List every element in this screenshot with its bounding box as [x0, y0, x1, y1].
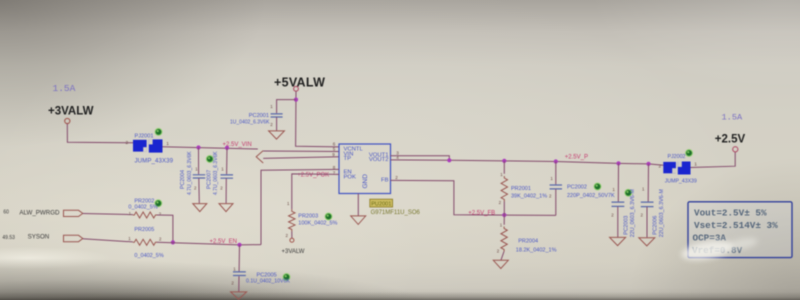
connector ALW_PWRGD [64, 210, 83, 216]
op-amp U1 body (regulator PU2001 box) [339, 144, 391, 194]
pin name EN [344, 170, 352, 176]
svg-text:G971MF11U_SO6: G971MF11U_SO6 [371, 210, 421, 216]
value 0_0402_5% PR2005 [134, 253, 163, 259]
svg-text:PU2001: PU2001 [371, 202, 391, 208]
svg-text:1: 1 [612, 187, 615, 192]
value 0_0402_5% PR2002 [128, 205, 157, 211]
wire PR2001 top [503, 161, 505, 174]
label PR2003 [298, 214, 318, 220]
value G971MF11U_SO6 [371, 210, 421, 216]
svg-text:1U_0402_6.3V6K: 1U_0402_6.3V6K [230, 119, 270, 125]
power symbol circle +3VALW [65, 118, 70, 123]
junction VOUT merge [447, 158, 451, 162]
svg-text:1: 1 [233, 266, 236, 271]
power net label +5VALW [274, 76, 325, 90]
power symbol circle +3VALW small [290, 238, 294, 242]
pin 6 number [333, 141, 336, 146]
svg-text:2: 2 [499, 200, 502, 205]
svg-text:PR2003: PR2003 [298, 214, 318, 220]
wire VOUT1 [391, 156, 450, 161]
svg-text:22U_0603_6.3V6-M: 22U_0603_6.3V6-M [659, 189, 665, 238]
wire EN net riser [261, 169, 339, 244]
wire PC2002 bottom [555, 189, 557, 215]
value 100K_0402_5% PR2003 [298, 220, 337, 226]
pin name VIN [344, 151, 354, 157]
wire PR2001 bottom [503, 202, 505, 216]
wire +5VALW down to VCNTL [296, 91, 339, 147]
wire PC2006 top [647, 164, 649, 202]
ground PC2003 [610, 237, 626, 245]
badge PR2002 [155, 200, 162, 207]
pin name VOUT1 [369, 152, 389, 158]
junction PC2004 tap [196, 145, 200, 149]
svg-text:0_0402_5%: 0_0402_5% [134, 253, 163, 259]
wire PC2003 bottom [617, 207, 619, 238]
svg-text:22U_0603_6.3V6-M: 22U_0603_6.3V6-M [630, 189, 636, 238]
badge PC2002 [594, 183, 601, 190]
note Vset=2.514V 3% [694, 220, 778, 231]
note box outline [688, 202, 792, 258]
pin number 1 of PJ2001 [166, 141, 169, 147]
wire POK to PR2003 [292, 174, 339, 209]
pin 2 of PR2004 [497, 249, 500, 254]
svg-text:4.7U_0603_6.3V6K: 4.7U_0603_6.3V6K [213, 151, 219, 195]
svg-text:220P_0402_50V7K: 220P_0402_50V7K [567, 193, 615, 199]
refdes PU2001 highlight box [370, 199, 393, 207]
pin 2 of PC2004 [194, 185, 197, 190]
junction PC2006 tap [646, 162, 650, 166]
pin 2 of PC2002 [549, 193, 552, 198]
svg-text:60: 60 [3, 210, 9, 216]
value 22U_0603_6.3V6-M PC2006 [659, 189, 665, 238]
svg-text:2: 2 [194, 185, 197, 190]
svg-text:1: 1 [166, 141, 169, 147]
pin name VOUT2 [369, 157, 389, 163]
svg-text:Vout=2.5V± 5%: Vout=2.5V± 5% [694, 207, 767, 218]
label PR2004 [518, 239, 538, 245]
power net label +2.5V [715, 134, 746, 146]
svg-text:1: 1 [500, 223, 503, 228]
power symbol circle +2.5V [733, 147, 738, 152]
junction FB divider [502, 213, 506, 217]
pin 2 of PC2001 [270, 122, 273, 127]
pin 2 number (FB) [395, 175, 398, 180]
value 0.1U_0402_10V6K [246, 279, 290, 285]
value 22U_0603_6.3V6-M PC2003 [630, 189, 636, 238]
capacitor PC2001 plates [271, 114, 283, 117]
jumper PJ2001 pads [133, 139, 163, 152]
label PC2007 [206, 170, 212, 189]
ground PC2007 [219, 204, 233, 212]
svg-text:PC2004: PC2004 [180, 170, 186, 189]
pin 3 number [396, 150, 399, 155]
pin 2 of PR2001 [499, 200, 502, 205]
pin 2 of PR2002 [159, 211, 162, 216]
wire PC2003 top [617, 163, 619, 201]
label JUMP_43X39 (PJ2002) [665, 179, 697, 185]
svg-text:1: 1 [500, 172, 503, 177]
svg-text:4.7U_0603_6.3V6K: 4.7U_0603_6.3V6K [187, 151, 193, 195]
current label 1.5A (left) [53, 83, 76, 94]
jumper PJ2002 pads [663, 162, 690, 175]
wire PR2002 to junction [157, 215, 173, 242]
pin 8 number [333, 165, 336, 170]
connector SYSON [64, 235, 83, 241]
ground PC2006 [639, 238, 655, 246]
wire ALW_PWRGD to PR2002 [83, 214, 133, 215]
wire PC2007 bottom [225, 178, 227, 203]
label PC2004 [180, 170, 186, 189]
value 4.7U_0603_6.3V6K PC2004 [187, 151, 193, 195]
pin name TP [344, 156, 352, 162]
value 39K_0402_1% [511, 194, 547, 200]
sheet ref 60 [3, 210, 9, 216]
svg-text:49.53: 49.53 [2, 235, 15, 241]
svg-text:SYSON: SYSON [28, 234, 50, 241]
junction PR2002/PR2005 [171, 240, 175, 244]
svg-text:1: 1 [642, 186, 645, 191]
capacitor PC2003 plates [612, 202, 625, 206]
svg-text:2: 2 [159, 236, 162, 241]
svg-text:9: 9 [332, 152, 335, 157]
svg-text:+2.5V: +2.5V [715, 134, 746, 146]
pin 2 of PC2005 [231, 280, 234, 285]
label PC2001 [249, 113, 269, 119]
svg-text:39K_0402_1%: 39K_0402_1% [511, 194, 547, 200]
resistor PR2002 [133, 212, 157, 218]
svg-text:1.5A: 1.5A [722, 112, 743, 122]
svg-text:18.2K_0402_1%: 18.2K_0402_1% [516, 247, 557, 253]
signal name ALW_PWRGD [19, 209, 60, 216]
svg-text:GND: GND [362, 174, 369, 189]
svg-text:2: 2 [611, 212, 614, 217]
svg-text:1: 1 [195, 166, 198, 171]
svg-text:5: 5 [333, 147, 336, 152]
label JUMP_43X39 (PJ2001) [135, 158, 174, 165]
junction PC2002 tap [554, 159, 558, 163]
svg-text:PC2001: PC2001 [249, 113, 269, 119]
net label +2.5V_P [565, 155, 588, 161]
wire PC2004 top [198, 148, 200, 175]
note Vref=0.8V [692, 245, 743, 256]
wire PC2002 top [555, 162, 557, 185]
value 220P_0402_50V7K [567, 193, 615, 199]
junction PC2005 tap [237, 243, 241, 247]
badge PJ2002 [686, 150, 693, 157]
resistor PR2003 [289, 209, 295, 231]
svg-text:PJ2001: PJ2001 [135, 134, 154, 140]
wire GND pin of PU2001 [357, 194, 359, 216]
pin 7 number [333, 170, 336, 175]
bus entry arrow [256, 151, 263, 163]
svg-text:PC2002: PC2002 [567, 185, 587, 191]
pin 4 number [396, 155, 399, 160]
wire PC2007 top [226, 148, 228, 174]
junction PC2007 tap [225, 146, 229, 150]
wire PC2001 branch [277, 100, 296, 114]
svg-text:+2.5V_EN: +2.5V_EN [210, 239, 238, 245]
svg-text:1: 1 [550, 176, 553, 181]
pin 2 of PC2007 [220, 185, 223, 190]
pin 1 of PR2004 [500, 223, 503, 228]
label PC2005 [257, 273, 277, 279]
pin 1 of PR2005 [128, 236, 131, 241]
junction PC2003 tap [616, 161, 620, 165]
wire PR2004 top [503, 215, 505, 225]
svg-text:PR2005: PR2005 [134, 227, 154, 233]
net label +2.5V_EN [210, 239, 238, 245]
pin 2 of PR2005 [159, 236, 162, 241]
badge PR2003 [325, 213, 332, 220]
svg-text:1: 1 [694, 162, 697, 168]
svg-text:2: 2 [659, 164, 662, 170]
svg-text:+2.5V_P: +2.5V_P [565, 155, 588, 161]
wire PC2004 bottom [198, 178, 201, 203]
svg-text:2: 2 [641, 212, 644, 217]
svg-text:2: 2 [549, 193, 552, 198]
signal name SYSON [28, 234, 50, 241]
svg-text:2: 2 [126, 140, 129, 146]
label PC2002 [567, 185, 587, 191]
note Vout=2.5V 5% [694, 207, 767, 218]
pin 1 of PC2005 [233, 266, 236, 271]
wire SYSON to PR2005 [83, 239, 133, 242]
resistor PR2005 [133, 239, 157, 245]
wire VOUT2 main rail [391, 160, 664, 165]
pin name POK [344, 175, 357, 181]
net label +2.5V_FB [468, 210, 495, 216]
resistor PR2004 [501, 227, 507, 252]
badge PC2007 [206, 156, 213, 163]
svg-text:PR2001: PR2001 [511, 186, 531, 192]
badge PC2005 [283, 274, 290, 281]
pin 1 of PC2001 [270, 104, 273, 109]
svg-text:PJ2002: PJ2002 [668, 154, 686, 160]
svg-text:1: 1 [221, 166, 224, 171]
pin name VCNTL [344, 146, 364, 152]
ground PU2001 [351, 216, 366, 225]
svg-text:0_0402_5%: 0_0402_5% [128, 205, 157, 211]
value 1U_0402_6.3V6K [230, 119, 270, 125]
label PU2001 [371, 202, 391, 208]
note OCP=3A [693, 232, 727, 243]
svg-text:PC2003: PC2003 [623, 216, 629, 235]
ground PC2004 [193, 204, 207, 212]
svg-text:+2.5V_POK: +2.5V_POK [297, 172, 329, 178]
badge PC2003 [625, 189, 632, 196]
capacitor PC2007 plates [221, 175, 234, 178]
power symbol circle +5VALW [294, 86, 299, 91]
ground PR2004 [493, 260, 508, 268]
pin name GND [362, 174, 369, 189]
pin 1 of PR2001 [500, 172, 503, 177]
pin number 2 of PJ2002 [659, 164, 662, 170]
junction PR2001 tap [502, 159, 506, 163]
junction PC2001 tap [294, 98, 298, 102]
svg-text:JUMP_43X39: JUMP_43X39 [135, 158, 174, 165]
capacitor PC2005 plates [233, 272, 246, 276]
svg-text:2: 2 [395, 175, 398, 180]
sheet ref 49.53 [2, 235, 15, 241]
wire PR2004 bottom [501, 252, 504, 261]
pin 1 of PC2007 [221, 166, 224, 171]
svg-text:TP: TP [344, 156, 352, 162]
pin 1 of PR2003 [287, 201, 290, 206]
svg-text:FB: FB [381, 178, 389, 184]
svg-text:PR2004: PR2004 [518, 239, 538, 245]
current label 1.5A (right) [722, 112, 743, 122]
wire FB net [391, 180, 556, 215]
label PJ2001 [135, 134, 154, 140]
label PR2001 [511, 186, 531, 192]
value 18.2K_0402_1% [516, 247, 557, 253]
wire PC2005 bottom [238, 276, 240, 291]
pin 2 of PC2006 [641, 212, 644, 217]
net label +3VALW (pull-up) [282, 249, 305, 255]
svg-text:1: 1 [128, 236, 131, 241]
svg-text:2: 2 [270, 122, 273, 127]
pin 2 of PC2003 [611, 212, 614, 217]
svg-text:JUMP_43X39: JUMP_43X39 [665, 179, 697, 185]
svg-text:2: 2 [497, 249, 500, 254]
svg-text:Vset=2.514V± 3%: Vset=2.514V± 3% [694, 220, 778, 231]
svg-text:2: 2 [220, 185, 223, 190]
pin number 1 of PJ2002 [694, 162, 697, 168]
svg-text:2: 2 [286, 233, 289, 238]
label PR2005 [134, 227, 154, 233]
svg-text:1: 1 [287, 201, 290, 206]
label PC2006 [653, 216, 659, 235]
pin 1 of PC2003 [612, 187, 615, 192]
svg-text:2: 2 [231, 280, 234, 285]
net label +2.5V_VIN [223, 142, 252, 148]
wire EN net horizontal [157, 242, 261, 245]
wire +3VALW to PJ2001 [67, 124, 133, 143]
wire PR2003 to power stub [291, 232, 293, 239]
pin 1 of PR2002 [129, 211, 132, 216]
svg-text:POK: POK [344, 175, 357, 181]
svg-text:1: 1 [270, 104, 273, 109]
ground PC2005 [231, 292, 247, 300]
pin 5 number [333, 147, 336, 152]
pin number 2 of PJ2001 [126, 140, 129, 146]
glare streak on note box [680, 236, 759, 264]
svg-text:PC2007: PC2007 [206, 170, 212, 189]
pin 9 number [332, 152, 335, 157]
pin name FB [381, 178, 389, 184]
svg-text:1: 1 [129, 211, 132, 216]
svg-text:1.5A: 1.5A [53, 83, 76, 94]
svg-text:PC2006: PC2006 [653, 216, 659, 235]
svg-text:ALW_PWRGD: ALW_PWRGD [19, 209, 60, 216]
wire PC2006 bottom [646, 207, 648, 238]
wire arrow to pin5 VIN [263, 150, 339, 153]
label PC2003 [623, 216, 629, 235]
svg-text:+2.5V_FB: +2.5V_FB [468, 210, 495, 216]
power net label +3VALW [48, 105, 94, 117]
pin 1 of PC2006 [642, 186, 645, 191]
net label +2.5V_POK [297, 172, 329, 178]
svg-text:+3VALW: +3VALW [282, 249, 305, 255]
wire arrow to pin9 TP [263, 157, 339, 159]
label PR2002 [134, 199, 154, 205]
svg-text:VOUT2: VOUT2 [369, 157, 389, 163]
wire PC2005 top [238, 245, 240, 272]
svg-text:+3VALW: +3VALW [48, 105, 94, 117]
svg-text:100K_0402_5%: 100K_0402_5% [298, 220, 337, 226]
pin 1 of PC2004 [195, 166, 198, 171]
wire PJ2002 to +2.5V [691, 152, 736, 168]
resistor PR2001 [501, 176, 507, 202]
label PJ2002 [668, 154, 686, 160]
value 4.7U_0603_6.3V6K PC2007 [213, 151, 219, 195]
wire PJ2001 to VIN arrow [163, 147, 258, 149]
capacitor PC2004 plates [193, 175, 206, 178]
capacitor PC2002 plates [550, 185, 562, 189]
badge PJ2001 [155, 129, 162, 136]
svg-text:0.1U_0402_10V6K: 0.1U_0402_10V6K [246, 279, 290, 285]
pin 2 of PR2003 [286, 233, 289, 238]
ground PC2001 [269, 131, 285, 139]
capacitor PC2006 plates [641, 202, 654, 207]
svg-text:+5VALW: +5VALW [274, 76, 325, 90]
wire PC2001 bottom [276, 117, 278, 130]
pin 1 of PC2002 [550, 176, 553, 181]
